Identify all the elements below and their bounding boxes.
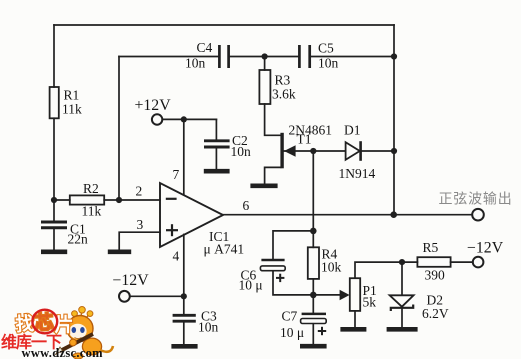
svg-text:μ A741: μ A741 xyxy=(204,242,245,257)
wire node A to R2 xyxy=(54,199,70,201)
wire C7 top lead xyxy=(312,295,314,313)
wire D2 to ground xyxy=(401,308,403,327)
svg-text:−12V: −12V xyxy=(113,272,150,289)
wire R3 top lead xyxy=(264,57,266,71)
svg-text:10n: 10n xyxy=(318,56,339,71)
svg-text:C4: C4 xyxy=(197,40,213,55)
svg-text:6.2V: 6.2V xyxy=(422,306,449,321)
wire C2 to ground xyxy=(215,148,217,169)
wire C4 to C5 xyxy=(230,56,298,58)
ground P1 xyxy=(340,327,366,332)
svg-text:T1: T1 xyxy=(297,132,312,147)
wire P1 bottom to ground xyxy=(354,311,356,327)
wire pin 7 xyxy=(183,119,185,194)
junction wiper node xyxy=(310,292,317,299)
svg-text:7: 7 xyxy=(173,167,180,182)
capacitor C3 plates xyxy=(173,315,196,321)
diode D2 zener xyxy=(390,295,414,311)
wire R1 bottom to node A xyxy=(53,118,55,220)
svg-text:11k: 11k xyxy=(82,204,102,219)
wire R2 to pin 2 xyxy=(104,199,160,201)
resistor R3 xyxy=(259,70,270,104)
potentiometer P1 xyxy=(340,278,361,311)
svg-text:3.6k: 3.6k xyxy=(272,87,296,102)
resistor R2 xyxy=(70,195,104,204)
resistor R5 xyxy=(417,257,450,267)
junction node A R1/R2/C1 xyxy=(51,197,57,203)
svg-text:4: 4 xyxy=(173,249,180,264)
junction C5 right rail xyxy=(391,53,397,59)
wire C7 to ground xyxy=(312,324,314,344)
svg-text:10n: 10n xyxy=(198,320,219,335)
svg-text:R3: R3 xyxy=(275,73,291,88)
watermark text zhao xin pian xyxy=(15,310,74,336)
wire R4 node to C6 top xyxy=(273,231,313,259)
capacitor C7 electrolytic xyxy=(301,314,327,335)
wire left rail top xyxy=(53,25,55,87)
wire right rail xyxy=(393,25,395,215)
ground C3 xyxy=(171,344,197,349)
wire -12V to pin4 node xyxy=(130,295,184,297)
op-amp minus input sign xyxy=(166,198,177,200)
ground C7 xyxy=(300,344,327,349)
svg-text:3: 3 xyxy=(137,217,144,232)
wire R4 top lead xyxy=(312,231,314,247)
wire D2 top lead xyxy=(401,262,403,295)
wire D1 cathode to right rail xyxy=(361,150,395,152)
capacitor C5 plates xyxy=(299,45,309,68)
ground T1 source xyxy=(250,184,277,189)
ground C2 xyxy=(204,169,230,174)
svg-text:10 μ: 10 μ xyxy=(239,278,263,293)
svg-text:−12V: −12V xyxy=(467,240,504,257)
wire C2 top lead xyxy=(215,119,217,139)
svg-text:+12V: +12V xyxy=(135,97,172,114)
terminal -12V left xyxy=(119,291,130,302)
terminal +12V xyxy=(152,114,162,124)
svg-text:5k: 5k xyxy=(363,295,377,310)
op-amp plus input sign xyxy=(166,224,178,236)
ground C1 xyxy=(41,250,67,255)
svg-text:11k: 11k xyxy=(62,102,82,117)
svg-text:D1: D1 xyxy=(344,123,361,138)
resistor R4 xyxy=(308,247,319,279)
wire C1 to ground xyxy=(53,229,55,249)
svg-text:正弦波输出: 正弦波输出 xyxy=(439,192,513,208)
terminal output xyxy=(472,209,484,221)
capacitor C1 plates xyxy=(41,222,67,228)
svg-text:10k: 10k xyxy=(321,260,342,275)
wire top to C4 xyxy=(119,56,218,58)
watermark red circle xyxy=(32,310,57,334)
wire T1 gate line xyxy=(284,150,346,152)
svg-text:10 μ: 10 μ xyxy=(280,325,304,340)
svg-text:2: 2 xyxy=(136,184,143,199)
ground pin3 xyxy=(108,250,131,255)
wire +12V to C2 corner xyxy=(162,118,216,120)
wire C3 to ground xyxy=(183,323,185,344)
junction R4 top node xyxy=(310,228,317,235)
wire R5 to -12V terminal xyxy=(451,261,473,263)
ground D2 xyxy=(387,327,418,332)
junction gate node xyxy=(310,148,316,154)
op-amp IC1 triangle xyxy=(160,183,223,247)
junction D2 R5 node xyxy=(399,259,405,265)
svg-text:1N914: 1N914 xyxy=(339,166,376,181)
wire top feedback rail xyxy=(54,24,394,26)
junction R3 top xyxy=(262,53,268,59)
svg-text:C5: C5 xyxy=(318,41,334,56)
wire pin 3 xyxy=(119,232,160,249)
terminal -12V right xyxy=(473,257,484,268)
wire T1 source to ground xyxy=(265,167,281,183)
wire gate node down to R4 xyxy=(312,151,314,231)
svg-text:22n: 22n xyxy=(68,232,89,247)
wire C5 to right rail xyxy=(311,56,394,58)
svg-text:R5: R5 xyxy=(423,240,439,255)
resistor R1 xyxy=(50,87,59,118)
svg-text:C7: C7 xyxy=(282,309,298,324)
svg-text:R2: R2 xyxy=(83,181,99,196)
svg-text:6: 6 xyxy=(243,198,250,213)
junction output node xyxy=(390,211,397,218)
wire feedback vertical to pin2 node xyxy=(118,57,120,201)
wire P1 top to R5 xyxy=(355,262,417,278)
capacitor C4 plates xyxy=(219,45,228,68)
transistor T1 2N4861 JFET xyxy=(282,133,296,169)
capacitor C6 electrolytic xyxy=(260,260,285,282)
junction +12V pin7 xyxy=(181,116,187,122)
junction pin4 -12V node xyxy=(181,293,187,299)
junction pin2 node xyxy=(116,197,122,203)
wire R3 bottom to T1 drain xyxy=(265,104,281,135)
wire C6 bottom to wiper line xyxy=(273,271,340,295)
watermark mascot xyxy=(56,307,114,359)
svg-text:www.dzsc.com: www.dzsc.com xyxy=(22,346,104,359)
svg-text:10n: 10n xyxy=(185,56,206,71)
wire R4 bottom lead xyxy=(312,279,314,295)
svg-text:R1: R1 xyxy=(64,88,80,103)
svg-text:10n: 10n xyxy=(231,144,252,159)
diode D1 1N914 xyxy=(346,141,361,161)
junction D1 right rail xyxy=(391,148,397,154)
wire pin 4 to C3 xyxy=(183,235,185,314)
capacitor C2 plates xyxy=(204,141,230,147)
svg-text:390: 390 xyxy=(425,268,446,283)
wire output pin 6 xyxy=(223,214,472,216)
